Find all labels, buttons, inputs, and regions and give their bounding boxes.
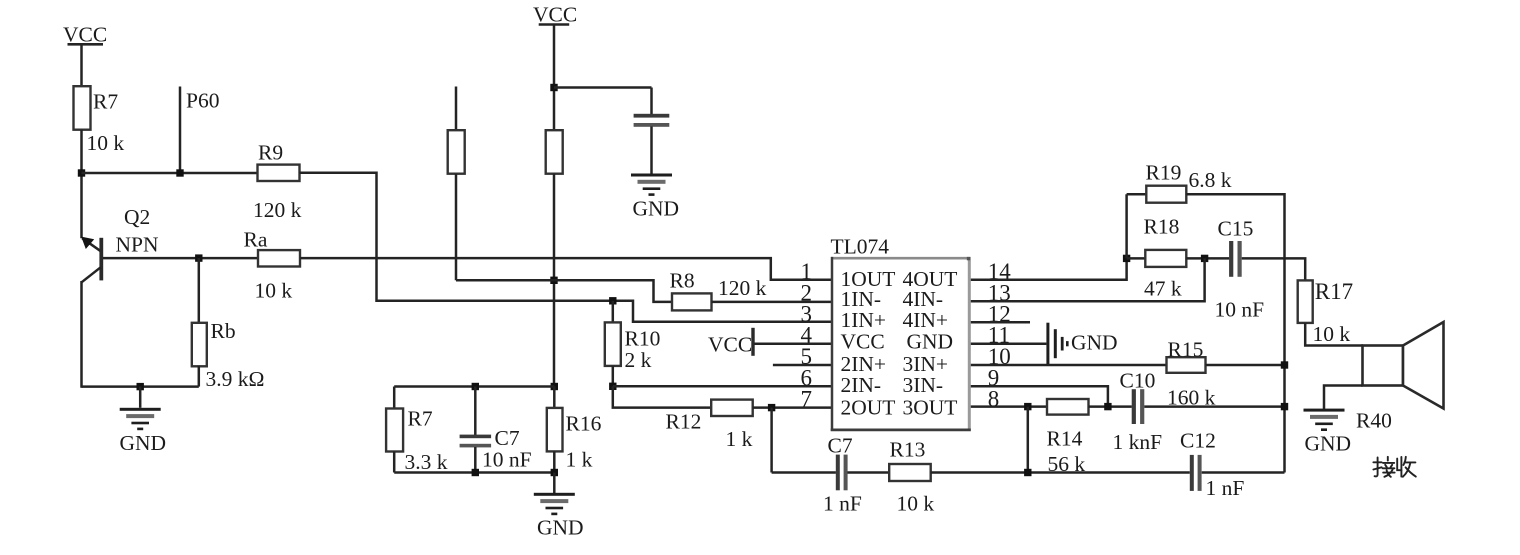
svg-text:10 nF: 10 nF bbox=[1215, 298, 1265, 322]
resistor R14 (56 k) bbox=[1047, 399, 1089, 415]
VCC rail bar top left bbox=[68, 43, 104, 46]
ground (pin 11) bbox=[1046, 323, 1068, 365]
svg-text:C7: C7 bbox=[828, 434, 853, 458]
speaker R40 body bbox=[1363, 322, 1444, 409]
resistor Ra (10 k) bbox=[258, 250, 300, 266]
wire R18 to C15 bbox=[1186, 257, 1229, 260]
svg-text:R14: R14 bbox=[1047, 427, 1083, 451]
svg-text:GND: GND bbox=[1305, 432, 1352, 456]
node junction R18/C15/4IN- bbox=[1201, 255, 1208, 262]
wire to R8 branch bbox=[456, 280, 673, 302]
wire emitter bottom bbox=[82, 385, 199, 388]
VCC rail bar top middle bbox=[539, 23, 570, 26]
svg-text:Ra: Ra bbox=[244, 228, 268, 252]
svg-text:3IN-: 3IN- bbox=[903, 373, 944, 397]
svg-text:GND: GND bbox=[537, 516, 584, 540]
svg-text:R40: R40 bbox=[1356, 409, 1392, 433]
transistor Q2 emitter diagonal bbox=[82, 267, 101, 282]
svg-text:GND: GND bbox=[120, 431, 167, 455]
wire Rb to emitter rail bbox=[198, 366, 201, 387]
node VCC/cap junction bbox=[550, 84, 557, 91]
node junction R16 bottom bbox=[551, 469, 558, 476]
resistor R16 (1 k) bbox=[547, 408, 563, 452]
wire pin 14 (4OUT) bbox=[971, 258, 1127, 279]
wire cap top lead bbox=[650, 88, 653, 115]
svg-text:R7: R7 bbox=[93, 90, 118, 114]
svg-text:10 k: 10 k bbox=[255, 279, 293, 303]
wire Q2 emitter down bbox=[80, 281, 83, 388]
wire R17 to speaker bbox=[1305, 323, 1363, 346]
wire 3OUT node down bbox=[1027, 407, 1030, 473]
resistor (left unlabeled) bbox=[448, 130, 465, 174]
wire R19 to right rail bbox=[1186, 194, 1284, 472]
node junction 3OUT/bottom bbox=[1024, 403, 1031, 410]
svg-text:R12: R12 bbox=[666, 410, 702, 434]
wire R7 to Q2 collector bbox=[80, 130, 83, 239]
node junction C7 top bbox=[472, 383, 479, 390]
svg-text:GND: GND bbox=[907, 329, 954, 353]
svg-text:GND: GND bbox=[1071, 331, 1118, 355]
ground (bypass cap) bbox=[631, 174, 672, 196]
wire VCC rail down to R16 net bbox=[553, 174, 556, 388]
svg-text:10 k: 10 k bbox=[87, 131, 125, 155]
wire R10 top lead bbox=[612, 301, 615, 323]
capacitor C7 (1 nF) bbox=[836, 455, 848, 491]
svg-text:2IN-: 2IN- bbox=[841, 373, 882, 397]
wire R19 left lead bbox=[1127, 193, 1147, 196]
wire node to R9 bbox=[82, 172, 259, 175]
wire C15 to R17 bbox=[1242, 258, 1306, 281]
wire VCC to pin 4 bbox=[755, 342, 832, 345]
svg-text:2 k: 2 k bbox=[625, 348, 652, 372]
node junction R15/right rail bbox=[1281, 361, 1288, 368]
svg-text:VCC: VCC bbox=[708, 333, 752, 357]
wire 2OUT node down bbox=[770, 408, 773, 473]
node junction R7/P60 wire bbox=[78, 169, 85, 176]
wire pin 10 (3IN+) bbox=[971, 364, 1167, 367]
resistor R12 (1 k) bbox=[711, 400, 753, 416]
wire VCC node to bypass cap bbox=[554, 86, 652, 89]
svg-text:P60: P60 bbox=[186, 89, 219, 113]
wire R15 to right rail bbox=[1206, 364, 1285, 367]
svg-text:1 nF: 1 nF bbox=[1206, 476, 1245, 500]
wire C7 bottom lead bbox=[474, 447, 477, 473]
svg-text:NPN: NPN bbox=[116, 233, 159, 257]
svg-text:10 k: 10 k bbox=[897, 492, 935, 516]
svg-text:C12: C12 bbox=[1180, 429, 1216, 453]
wire speaker to GND bbox=[1324, 386, 1363, 410]
node junction R18/R19 left bbox=[1123, 255, 1130, 262]
wire C10 to right rail bbox=[1144, 405, 1284, 408]
svg-text:C10: C10 bbox=[1120, 369, 1156, 393]
capacitor C7 (10 nF) bbox=[460, 435, 492, 448]
wire Q2 base to Ra bbox=[103, 257, 258, 260]
svg-text:Rb: Rb bbox=[211, 319, 236, 343]
svg-text:120 k: 120 k bbox=[718, 276, 767, 300]
wire R16 top lead bbox=[553, 387, 556, 409]
resistor R10 (2 k) bbox=[605, 322, 621, 366]
wire pin 9 (3IN-) bbox=[971, 386, 1108, 406]
resistor (VCC rail, unlabeled) bbox=[546, 130, 563, 174]
svg-text:R19: R19 bbox=[1146, 161, 1182, 185]
op-amp U1 TL074 IC body bbox=[831, 257, 971, 431]
resistor R9 (120 k) bbox=[258, 165, 300, 181]
svg-text:2OUT: 2OUT bbox=[841, 395, 896, 419]
svg-text:1 knF: 1 knF bbox=[1113, 430, 1163, 454]
node junction emitter GND bbox=[137, 383, 144, 390]
svg-text:GND: GND bbox=[633, 197, 680, 221]
svg-text:10 k: 10 k bbox=[1313, 322, 1351, 346]
svg-text:1 k: 1 k bbox=[726, 427, 753, 451]
svg-text:R13: R13 bbox=[890, 438, 926, 462]
resistor R7 (10 k) bbox=[74, 86, 91, 130]
svg-text:R8: R8 bbox=[670, 269, 695, 293]
resistor R7 (3.3 k) bbox=[386, 409, 403, 452]
svg-text:10 nF: 10 nF bbox=[482, 448, 532, 472]
wire R10 bottom lead bbox=[612, 366, 615, 387]
wire R8 to pin 2 bbox=[712, 301, 832, 304]
node junction P60 bbox=[176, 169, 183, 176]
node junction R10 bottom bbox=[609, 383, 616, 390]
ground (Q2 emitter) bbox=[120, 408, 161, 430]
node junction bottom/3OUT bbox=[1024, 469, 1031, 476]
capacitor bypass (top middle) bbox=[634, 114, 670, 127]
node junction pin9/R14/C10 bbox=[1104, 403, 1111, 410]
wire stub above left unlabeled resistor bbox=[455, 87, 458, 131]
wire R13 to C12 bbox=[931, 471, 1190, 474]
wire left resistor down bbox=[455, 174, 458, 280]
wire C7 to R13 bbox=[848, 471, 890, 474]
capacitor C12 (1 nF) bbox=[1190, 455, 1202, 491]
resistor Rb (3.9 k) bbox=[192, 323, 207, 367]
svg-text:VCC: VCC bbox=[63, 23, 107, 47]
svg-text:7: 7 bbox=[801, 387, 813, 412]
wire R7(2) bottom lead bbox=[393, 452, 396, 473]
svg-text:3.3 k: 3.3 k bbox=[405, 450, 448, 474]
ground (R16) bbox=[534, 493, 575, 515]
wire P60 stub bbox=[179, 87, 182, 174]
ground (speaker) bbox=[1304, 409, 1345, 431]
svg-text:C15: C15 bbox=[1218, 217, 1254, 241]
resistor R13 (10 k) bbox=[889, 464, 931, 481]
wire cap bottom lead bbox=[650, 127, 653, 175]
wire C12 to right rail bbox=[1202, 471, 1285, 474]
svg-text:C7: C7 bbox=[495, 426, 520, 450]
node junction C10/right rail bbox=[1281, 403, 1288, 410]
resistor R18 (47 k) bbox=[1145, 250, 1186, 267]
svg-text:R15: R15 bbox=[1168, 338, 1204, 362]
svg-text:TL074: TL074 bbox=[831, 235, 890, 259]
svg-text:1 k: 1 k bbox=[566, 448, 593, 472]
svg-text:R16: R16 bbox=[566, 412, 602, 436]
svg-text:47 k: 47 k bbox=[1144, 277, 1182, 301]
wire junction up to R19 bbox=[1125, 194, 1128, 258]
wire R16 to GND bbox=[553, 473, 556, 494]
wire pin 11 (GND) bbox=[971, 342, 1047, 345]
resistor R15 (160 k) bbox=[1167, 357, 1206, 373]
text 接收 (receive) drawn as strokes bbox=[1373, 457, 1415, 477]
wire R7(2) top lead bbox=[393, 387, 396, 410]
transistor Q2 collector diagonal with arrow bbox=[81, 237, 100, 251]
node junction R10 top bbox=[609, 297, 616, 304]
wire filter top rail bbox=[394, 385, 554, 388]
wire 2OUT node to C7 bbox=[772, 471, 836, 474]
wire filter bottom rail bbox=[394, 471, 554, 474]
capacitor C10 (1 knF) bbox=[1132, 389, 1145, 424]
svg-text:R9: R9 bbox=[258, 141, 283, 165]
resistor R19 (6.8 k) bbox=[1146, 186, 1186, 203]
wire R14 to C10 bbox=[1089, 405, 1132, 408]
node junction VCC rail / filter top bbox=[551, 383, 558, 390]
wire R9 to 1IN+ net bbox=[300, 173, 832, 322]
wire VCC down bbox=[553, 25, 556, 131]
wire R12 to pin 7 (2OUT) bbox=[753, 406, 832, 409]
svg-text:VCC: VCC bbox=[841, 329, 885, 353]
svg-text:3OUT: 3OUT bbox=[903, 395, 958, 419]
wire R16 bottom lead bbox=[553, 451, 556, 472]
node junction 2OUT / feedback bbox=[768, 404, 775, 411]
wire R10 node down to R12 bbox=[613, 386, 711, 407]
svg-text:R17: R17 bbox=[1315, 279, 1353, 304]
svg-text:3.9 kΩ: 3.9 kΩ bbox=[206, 367, 265, 391]
svg-text:1 nF: 1 nF bbox=[823, 492, 862, 516]
wire VCC to R7 bbox=[80, 44, 83, 87]
wire pin 5 stub (2IN+) bbox=[773, 364, 832, 367]
svg-text:R10: R10 bbox=[625, 327, 661, 351]
wire pin 13 (4IN-) bbox=[971, 258, 1205, 301]
wire pin 12 stub (4IN+) bbox=[971, 321, 1030, 324]
wire Ra to 1OUT pin1 bbox=[300, 258, 832, 280]
wire R18 left lead bbox=[1127, 257, 1146, 260]
svg-text:VCC: VCC bbox=[533, 3, 577, 27]
wire base node to Rb bbox=[198, 258, 201, 323]
svg-text:R7: R7 bbox=[408, 407, 433, 431]
VCC terminal bar (pin 4) bbox=[751, 328, 754, 356]
resistor R17 (10 k) bbox=[1298, 280, 1313, 323]
svg-text:120 k: 120 k bbox=[253, 198, 302, 222]
wire pin 6 (2IN-) bbox=[613, 385, 832, 388]
svg-text:Q2: Q2 bbox=[124, 205, 150, 229]
wire node to GND bbox=[139, 387, 142, 408]
wire pin 8 (3OUT) bbox=[971, 405, 1047, 408]
node junction VCC rail / R8 net bbox=[550, 277, 557, 284]
svg-text:R18: R18 bbox=[1144, 215, 1180, 239]
svg-text:6.8 k: 6.8 k bbox=[1189, 168, 1232, 192]
wire C7 top lead bbox=[474, 387, 477, 436]
resistor R8 (120 k) bbox=[672, 293, 712, 310]
capacitor C15 (10 nF) bbox=[1229, 241, 1242, 277]
node junction C7 bottom bbox=[472, 469, 479, 476]
node junction base/Rb bbox=[195, 254, 202, 261]
transistor Q2 base bar bbox=[99, 238, 103, 281]
